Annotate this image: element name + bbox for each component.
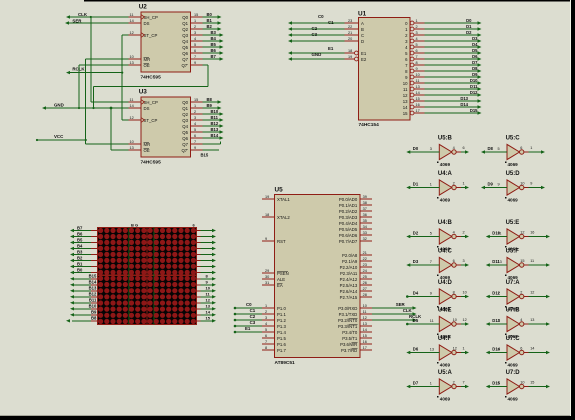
svg-text:D5: D5: [472, 48, 478, 53]
svg-text:P3.6/WR: P3.6/WR: [340, 342, 357, 347]
svg-text:24: 24: [363, 269, 367, 273]
svg-text:1: 1: [430, 183, 432, 187]
svg-text:2: 2: [194, 110, 196, 114]
svg-text:4069: 4069: [440, 198, 451, 203]
svg-text:B8: B8: [207, 97, 213, 102]
svg-text:P0.1/AD1: P0.1/AD1: [339, 203, 358, 208]
svg-text:4069: 4069: [508, 363, 519, 368]
svg-text:35: 35: [363, 219, 367, 223]
svg-text:OE: OE: [144, 148, 150, 153]
svg-text:P2.0/A8: P2.0/A8: [342, 253, 358, 258]
svg-text:B2: B2: [207, 24, 213, 29]
svg-text:7: 7: [194, 140, 196, 144]
svg-text:4: 4: [194, 122, 196, 126]
svg-text:B0: B0: [207, 12, 213, 17]
svg-text:P3.2/INT0: P3.2/INT0: [338, 318, 358, 323]
svg-text:P3.5/T1: P3.5/T1: [342, 336, 358, 341]
svg-text:15: 15: [363, 334, 367, 338]
svg-text:3: 3: [194, 116, 196, 120]
svg-text:13: 13: [130, 146, 134, 150]
svg-text:D3: D3: [413, 259, 419, 264]
svg-text:23: 23: [348, 19, 352, 23]
svg-text:P3.4/T0: P3.4/T0: [342, 330, 358, 335]
svg-text:5: 5: [416, 43, 418, 47]
svg-text:C2: C2: [312, 26, 318, 31]
svg-text:5: 5: [498, 348, 500, 352]
svg-text:2: 2: [194, 25, 196, 29]
svg-text:9: 9: [530, 182, 532, 186]
svg-text:22: 22: [348, 25, 352, 29]
svg-text:10: 10: [363, 304, 367, 308]
svg-text:3: 3: [463, 259, 465, 263]
svg-text:2: 2: [453, 381, 455, 385]
svg-text:39: 39: [363, 195, 367, 199]
svg-text:16: 16: [416, 103, 420, 107]
svg-text:B10: B10: [211, 109, 219, 114]
svg-text:B14: B14: [89, 280, 97, 285]
svg-text:B8: B8: [91, 316, 97, 321]
svg-text:6: 6: [194, 134, 196, 138]
svg-text:2: 2: [520, 291, 522, 295]
svg-text:Q5: Q5: [182, 130, 188, 135]
svg-text:D7: D7: [472, 60, 478, 65]
svg-text:P0.6/AD6: P0.6/AD6: [339, 233, 358, 238]
svg-text:Q4: Q4: [182, 39, 188, 44]
svg-text:7: 7: [194, 55, 196, 59]
svg-text:C: C: [361, 33, 364, 38]
svg-text:P1.3: P1.3: [277, 324, 286, 329]
svg-text:4: 4: [453, 231, 455, 235]
svg-text:D9: D9: [472, 72, 478, 77]
svg-text:B5: B5: [211, 42, 217, 47]
svg-text:D15: D15: [470, 108, 478, 113]
svg-text:U5:D: U5:D: [506, 171, 521, 177]
svg-text:15: 15: [194, 98, 198, 102]
svg-text:20: 20: [348, 37, 352, 41]
svg-text:23: 23: [363, 263, 367, 267]
svg-text:E1: E1: [361, 51, 367, 56]
svg-text:P1.4: P1.4: [277, 330, 286, 335]
svg-text:U7:D: U7:D: [506, 370, 521, 376]
svg-text:SH_CP: SH_CP: [144, 100, 158, 105]
svg-text:9: 9: [498, 382, 500, 386]
svg-text:E1: E1: [328, 46, 334, 51]
svg-text:P0.0/AD0: P0.0/AD0: [339, 197, 358, 202]
svg-text:5: 5: [265, 328, 267, 332]
svg-text:1: 1: [194, 104, 196, 108]
svg-text:18: 18: [348, 49, 352, 53]
svg-text:33: 33: [363, 231, 367, 235]
svg-text:C3: C3: [250, 320, 256, 325]
svg-text:13: 13: [363, 322, 367, 326]
svg-text:D13: D13: [460, 96, 468, 101]
svg-text:U1: U1: [358, 10, 367, 17]
svg-text:12: 12: [453, 347, 457, 351]
svg-text:GND: GND: [54, 103, 64, 108]
svg-text:U5:C: U5:C: [506, 136, 521, 142]
svg-text:AT89C51: AT89C51: [275, 360, 296, 366]
svg-text:P0.7/AD7: P0.7/AD7: [339, 239, 358, 244]
svg-text:P0.3/AD3: P0.3/AD3: [339, 215, 358, 220]
svg-text:U3: U3: [139, 88, 148, 95]
svg-text:12: 12: [530, 291, 534, 295]
svg-text:U4:B: U4:B: [438, 220, 453, 226]
svg-text:B11: B11: [211, 115, 219, 120]
svg-text:10: 10: [416, 73, 420, 77]
svg-text:4: 4: [453, 146, 455, 150]
svg-text:11: 11: [130, 13, 134, 17]
svg-text:U2: U2: [139, 3, 148, 10]
svg-text:4: 4: [194, 37, 196, 41]
svg-text:P1.7: P1.7: [277, 348, 286, 353]
svg-text:4: 4: [520, 318, 522, 322]
svg-text:27: 27: [363, 287, 367, 291]
svg-text:13: 13: [206, 304, 211, 309]
svg-text:CLK: CLK: [78, 12, 88, 17]
svg-text:C1: C1: [250, 308, 256, 313]
svg-text:14: 14: [403, 105, 408, 110]
svg-text:D6: D6: [472, 54, 478, 59]
svg-text:2: 2: [453, 182, 455, 186]
svg-text:U7:B: U7:B: [506, 308, 521, 314]
svg-text:Q2: Q2: [182, 112, 188, 117]
svg-text:32: 32: [363, 237, 367, 241]
svg-text:11: 11: [363, 310, 367, 314]
svg-text:36: 36: [363, 213, 367, 217]
svg-text:D6: D6: [413, 346, 419, 351]
svg-text:VCC: VCC: [54, 134, 64, 139]
svg-text:6: 6: [265, 334, 267, 338]
svg-text:74HC595: 74HC595: [141, 159, 162, 165]
svg-text:1: 1: [498, 292, 500, 296]
svg-text:P0.5/AD5: P0.5/AD5: [339, 227, 358, 232]
svg-text:B15: B15: [201, 153, 209, 158]
svg-text:10: 10: [206, 286, 211, 291]
svg-text:U7:C: U7:C: [506, 336, 521, 342]
svg-text:Q1: Q1: [182, 106, 188, 111]
svg-text:1: 1: [416, 19, 418, 23]
svg-text:3: 3: [265, 316, 267, 320]
svg-text:C2: C2: [250, 314, 256, 319]
svg-text:2: 2: [265, 310, 267, 314]
svg-text:31: 31: [265, 281, 269, 285]
svg-text:C0: C0: [246, 302, 252, 307]
svg-text:OE: OE: [144, 63, 150, 68]
svg-text:B G: B G: [131, 222, 138, 227]
svg-text:P2.7/A15: P2.7/A15: [340, 295, 358, 300]
svg-text:D4: D4: [472, 42, 478, 47]
svg-text:B10: B10: [89, 304, 97, 309]
svg-text:Q0: Q0: [182, 100, 188, 105]
svg-text:B7: B7: [211, 54, 217, 59]
svg-text:U4:A: U4:A: [438, 171, 453, 177]
svg-text:3: 3: [430, 147, 432, 151]
svg-text:B2: B2: [77, 255, 83, 260]
svg-text:U4:E: U4:E: [438, 308, 452, 314]
svg-text:U5: U5: [275, 187, 284, 194]
svg-text:P3.1/TXD: P3.1/TXD: [339, 312, 358, 317]
svg-text:D0: D0: [466, 18, 472, 23]
svg-text:E2: E2: [361, 57, 367, 62]
svg-text:U4:F: U4:F: [438, 336, 452, 342]
svg-text:SH_CP: SH_CP: [144, 15, 158, 20]
svg-text:1: 1: [265, 304, 267, 308]
svg-text:D: D: [361, 39, 364, 44]
svg-text:SER: SER: [72, 18, 82, 23]
svg-text:9: 9: [265, 237, 267, 241]
svg-text:13: 13: [498, 260, 502, 264]
svg-text:18: 18: [265, 213, 269, 217]
svg-text:13: 13: [430, 348, 434, 352]
svg-text:6: 6: [194, 49, 196, 53]
svg-text:B3: B3: [77, 249, 83, 254]
svg-text:5: 5: [498, 147, 500, 151]
svg-text:B13: B13: [211, 127, 219, 132]
svg-text:1: 1: [430, 382, 432, 386]
svg-text:10: 10: [130, 55, 134, 59]
svg-text:21: 21: [348, 31, 352, 35]
svg-text:4069: 4069: [508, 162, 519, 167]
svg-text:11: 11: [498, 232, 502, 236]
svg-text:10: 10: [130, 140, 134, 144]
svg-text:D11: D11: [470, 84, 478, 89]
svg-text:D1: D1: [413, 181, 419, 186]
svg-text:17: 17: [416, 109, 420, 113]
svg-text:CLK: CLK: [403, 308, 413, 313]
svg-text:D2: D2: [466, 30, 472, 35]
svg-text:15: 15: [416, 97, 420, 101]
svg-text:28: 28: [363, 293, 367, 297]
svg-text:A: A: [361, 21, 364, 26]
svg-text:Q0: Q0: [182, 15, 188, 20]
svg-text:P2.1/A9: P2.1/A9: [342, 259, 358, 264]
svg-text:B3: B3: [211, 30, 217, 35]
svg-text:12: 12: [403, 93, 408, 98]
svg-text:D3: D3: [472, 36, 478, 41]
svg-text:C1: C1: [328, 20, 334, 25]
svg-text:12: 12: [520, 231, 524, 235]
svg-text:U5:A: U5:A: [438, 370, 453, 376]
svg-text:1: 1: [463, 182, 465, 186]
svg-text:EA: EA: [277, 283, 283, 288]
svg-text:6: 6: [463, 146, 465, 150]
svg-text:GND: GND: [312, 52, 322, 57]
svg-text:Q7: Q7: [182, 57, 188, 62]
svg-text:Q7': Q7': [181, 63, 188, 68]
svg-text:D2: D2: [413, 230, 419, 235]
svg-text:P1.1: P1.1: [277, 312, 286, 317]
svg-text:P2.5/A13: P2.5/A13: [340, 283, 358, 288]
svg-text:RST: RST: [277, 239, 286, 244]
svg-text:P1.0: P1.0: [277, 306, 286, 311]
svg-text:9: 9: [498, 183, 500, 187]
svg-text:4: 4: [416, 37, 418, 41]
svg-text:5: 5: [194, 43, 196, 47]
svg-text:B13: B13: [89, 286, 97, 291]
svg-text:U5:B: U5:B: [438, 136, 453, 142]
svg-text:P2.6/A14: P2.6/A14: [340, 289, 358, 294]
svg-text:15: 15: [194, 13, 198, 17]
svg-text:15: 15: [530, 381, 534, 385]
svg-text:15: 15: [206, 316, 211, 321]
svg-text:21: 21: [363, 251, 367, 255]
svg-text:3: 3: [498, 319, 500, 323]
svg-text:B7: B7: [77, 225, 83, 230]
svg-text:7: 7: [430, 260, 432, 264]
svg-text:10: 10: [453, 318, 457, 322]
svg-text:Q6: Q6: [182, 51, 188, 56]
svg-text:D5: D5: [413, 318, 419, 323]
svg-text:13: 13: [530, 318, 534, 322]
svg-text:ALE: ALE: [277, 277, 285, 282]
svg-text:4069: 4069: [508, 397, 519, 402]
svg-text:6: 6: [416, 49, 418, 53]
svg-text:14: 14: [363, 328, 367, 332]
svg-text:2: 2: [463, 231, 465, 235]
svg-text:D10: D10: [470, 78, 478, 83]
svg-text:19: 19: [265, 195, 269, 199]
svg-text:P1.6: P1.6: [277, 342, 286, 347]
svg-text:B: B: [361, 27, 364, 32]
svg-text:Q2: Q2: [182, 27, 188, 32]
svg-text:MR: MR: [144, 57, 151, 62]
svg-text:ST_CP: ST_CP: [144, 118, 158, 123]
svg-text:8: 8: [416, 61, 418, 65]
svg-text:PSEN: PSEN: [277, 271, 289, 276]
svg-text:B1: B1: [77, 261, 83, 266]
svg-text:D8: D8: [472, 66, 478, 71]
svg-text:U4:C: U4:C: [438, 249, 453, 255]
svg-text:11: 11: [403, 87, 408, 92]
svg-text:14: 14: [530, 347, 534, 351]
svg-text:B12: B12: [89, 292, 97, 297]
svg-text:13: 13: [403, 99, 408, 104]
svg-text:15: 15: [520, 259, 524, 263]
svg-text:11: 11: [530, 259, 534, 263]
svg-text:B11: B11: [89, 298, 97, 303]
svg-text:5: 5: [430, 232, 432, 236]
svg-text:B5: B5: [77, 237, 83, 242]
svg-text:U5:E: U5:E: [506, 220, 520, 226]
svg-text:D4: D4: [413, 290, 419, 295]
svg-text:74HC595: 74HC595: [141, 74, 162, 80]
svg-text:12: 12: [206, 298, 211, 303]
svg-text:ST_CP: ST_CP: [144, 33, 158, 38]
svg-text:4069: 4069: [440, 162, 451, 167]
svg-text:XTAL1: XTAL1: [277, 197, 290, 202]
svg-text:D12: D12: [470, 90, 478, 95]
svg-text:B6: B6: [211, 48, 217, 53]
svg-text:Q5: Q5: [182, 45, 188, 50]
svg-text:4069: 4069: [508, 198, 519, 203]
svg-text:Q6: Q6: [182, 136, 188, 141]
svg-text:3: 3: [416, 31, 418, 35]
svg-text:D8: D8: [488, 146, 494, 151]
svg-text:11: 11: [430, 319, 434, 323]
svg-text:B12: B12: [211, 121, 219, 126]
svg-text:38: 38: [363, 201, 367, 205]
svg-text:4: 4: [265, 322, 267, 326]
svg-text:DS: DS: [144, 106, 150, 111]
svg-text:Q3: Q3: [182, 33, 188, 38]
svg-text:15: 15: [403, 111, 408, 116]
svg-text:XTAL2: XTAL2: [277, 215, 290, 220]
svg-text:29: 29: [265, 269, 269, 273]
svg-text:3: 3: [194, 31, 196, 35]
svg-text:8: 8: [453, 291, 455, 295]
svg-text:34: 34: [363, 225, 367, 229]
svg-text:8: 8: [265, 346, 267, 350]
svg-text:9: 9: [194, 146, 196, 150]
svg-text:C0: C0: [318, 14, 324, 19]
svg-text:P1.5: P1.5: [277, 336, 286, 341]
svg-text:4069: 4069: [440, 363, 451, 368]
svg-text:10: 10: [403, 81, 408, 86]
svg-text:B4: B4: [211, 36, 217, 41]
svg-text:E1: E1: [245, 326, 251, 331]
svg-text:D14: D14: [460, 102, 468, 107]
svg-text:14: 14: [130, 104, 134, 108]
svg-text:D9: D9: [488, 181, 494, 186]
svg-text:9: 9: [430, 292, 432, 296]
svg-text:16: 16: [530, 231, 534, 235]
svg-text:D0: D0: [413, 146, 419, 151]
svg-text:16: 16: [363, 340, 367, 344]
svg-text:P2.4/A12: P2.4/A12: [340, 277, 358, 282]
svg-text:Q7: Q7: [182, 142, 188, 147]
svg-text:5: 5: [194, 128, 196, 132]
svg-text:Q1: Q1: [182, 21, 188, 26]
svg-text:B6: B6: [77, 231, 83, 236]
svg-text:B14: B14: [211, 133, 219, 138]
svg-text:D1: D1: [466, 24, 472, 29]
svg-text:U7:A: U7:A: [506, 280, 521, 286]
svg-text:14: 14: [206, 310, 211, 315]
svg-text:37: 37: [363, 207, 367, 211]
svg-text:2: 2: [416, 25, 418, 29]
svg-text:26: 26: [363, 281, 367, 285]
svg-text:6: 6: [520, 146, 522, 150]
svg-text:7: 7: [416, 55, 418, 59]
svg-text:13: 13: [416, 85, 420, 89]
svg-text:4069: 4069: [440, 397, 451, 402]
svg-text:DS: DS: [144, 21, 150, 26]
svg-text:Q3: Q3: [182, 118, 188, 123]
svg-text:25: 25: [363, 275, 367, 279]
svg-text:11: 11: [416, 79, 420, 83]
svg-text:P3.3/INT1: P3.3/INT1: [338, 324, 358, 329]
svg-text:12: 12: [363, 316, 367, 320]
svg-text:13: 13: [130, 61, 134, 65]
svg-text:10: 10: [520, 182, 524, 186]
svg-text:B4: B4: [77, 243, 83, 248]
svg-text:P0.4/AD4: P0.4/AD4: [339, 221, 358, 226]
svg-text:P3.0/RXD: P3.0/RXD: [338, 306, 357, 311]
svg-text:1: 1: [463, 347, 465, 351]
svg-text:9: 9: [416, 67, 418, 71]
svg-text:P2.2/A10: P2.2/A10: [340, 265, 358, 270]
svg-text:12: 12: [130, 31, 134, 35]
svg-text:B9: B9: [91, 310, 97, 315]
svg-text:19: 19: [348, 55, 352, 59]
svg-text:12: 12: [463, 318, 467, 322]
svg-text:12: 12: [130, 116, 134, 120]
svg-text:B1: B1: [207, 18, 213, 23]
svg-text:P3.7/RD: P3.7/RD: [341, 348, 357, 353]
svg-text:D7: D7: [413, 380, 419, 385]
svg-text:10: 10: [520, 381, 524, 385]
svg-text:U5:F: U5:F: [506, 249, 520, 255]
